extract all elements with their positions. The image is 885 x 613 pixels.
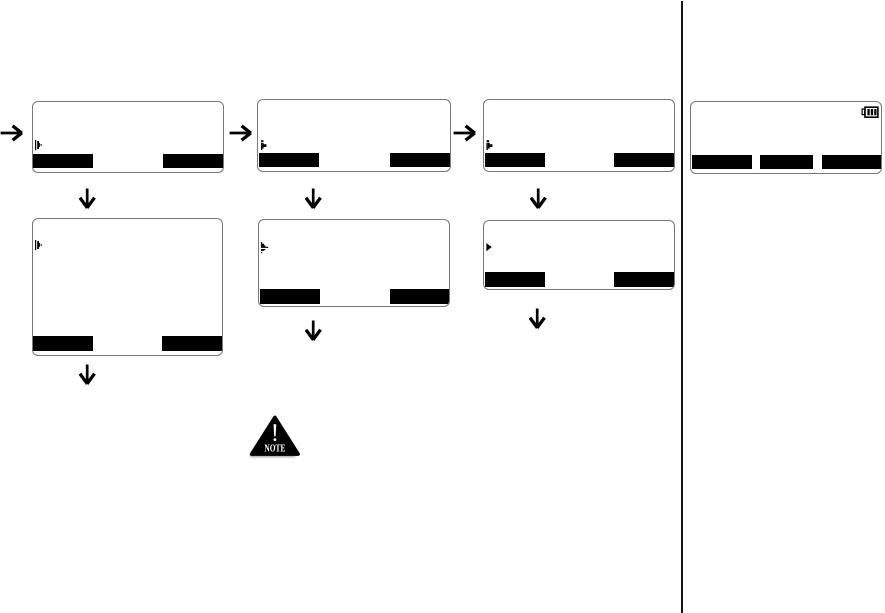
- softkey bar right: [390, 289, 449, 304]
- softkey bar 3: [822, 155, 881, 170]
- arrow into screen 1: [0, 124, 24, 142]
- down arrow below screen 1b: [79, 364, 96, 386]
- cursor icon in screen 1b: [35, 240, 43, 251]
- cursor icon in screen 3b: [486, 243, 493, 252]
- softkey bar left: [485, 272, 545, 287]
- down arrow below screen 2b: [305, 320, 322, 342]
- softkey bar left: [485, 153, 545, 167]
- cursor icon in screen 2b: [260, 241, 269, 254]
- screen box 2b (second row): [258, 219, 450, 307]
- screen box 1b (second row, tall): [32, 218, 223, 356]
- NOTE warning triangle: [244, 410, 308, 464]
- down arrow below screen 2: [305, 188, 322, 210]
- screen box 4 (right column, battery screen): [690, 101, 882, 174]
- arrow screen2 to screen3: [453, 124, 477, 142]
- cursor icon in screen 1: [35, 140, 43, 151]
- cursor icon in screen 2: [260, 140, 268, 151]
- screen box 2 (top row): [257, 99, 451, 172]
- softkey bar 2: [760, 155, 813, 170]
- svg-text:NOTE: NOTE: [264, 443, 285, 455]
- softkey bar right: [614, 153, 674, 167]
- softkey bar left: [33, 154, 93, 168]
- down arrow below screen 1: [79, 188, 96, 210]
- softkey bar left: [260, 289, 320, 304]
- battery icon: [860, 105, 880, 119]
- softkey bar left: [33, 336, 93, 351]
- arrow screen1 to screen2: [229, 124, 253, 142]
- softkey bar right: [390, 153, 450, 167]
- softkey bar 1: [692, 155, 752, 170]
- screen box 3 (top row): [483, 99, 675, 172]
- down arrow below screen 3b: [529, 308, 546, 330]
- softkey bar right: [162, 336, 222, 351]
- screen box 1 (top row): [32, 101, 224, 173]
- softkey bar right: [614, 272, 674, 287]
- softkey bar right: [163, 154, 223, 168]
- cursor icon in screen 3: [486, 140, 494, 151]
- down arrow below screen 3: [530, 188, 547, 210]
- page divider line: [681, 1, 683, 613]
- screen box 3b (second row): [483, 220, 675, 290]
- softkey bar left: [259, 153, 319, 167]
